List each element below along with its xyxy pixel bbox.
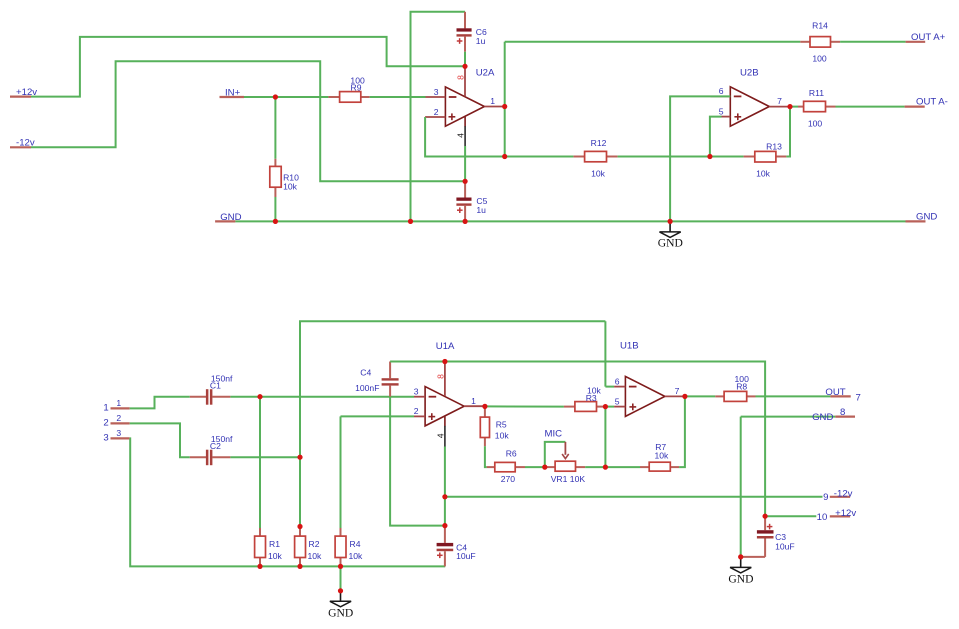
- ground symbol bottom left: [328, 591, 353, 620]
- wire VR1 to R7 junction: [585, 466, 605, 468]
- resistor R4: [335, 528, 363, 566]
- node port 2: [103, 413, 129, 429]
- svg-text:R13: R13: [766, 141, 782, 151]
- op-amp U1B: [620, 341, 665, 417]
- node +12v port label: [10, 87, 37, 98]
- svg-text:10uF: 10uF: [456, 551, 476, 561]
- node junction U1A out: [483, 404, 488, 409]
- node junction +12v/C6/pin8: [463, 64, 468, 69]
- wire -12v line: [445, 496, 823, 498]
- node U1B pin 5: [605, 396, 625, 406]
- op-amp U2B: [730, 68, 769, 127]
- svg-text:1u: 1u: [476, 205, 486, 215]
- svg-text:10k: 10k: [756, 169, 771, 179]
- wire MIC wiper loop: [545, 442, 566, 467]
- svg-text:8: 8: [435, 374, 445, 379]
- node junction out/feedback: [502, 154, 507, 159]
- svg-text:7: 7: [675, 386, 680, 396]
- svg-text:2: 2: [414, 406, 419, 416]
- wire U2B out to R11: [790, 106, 798, 108]
- node -12v port label: [10, 138, 35, 149]
- node U2A pin 2: [425, 107, 445, 117]
- svg-text:R2: R2: [309, 539, 320, 549]
- svg-text:MIC: MIC: [545, 429, 563, 440]
- wire pin4 to -12v junction: [464, 146, 466, 181]
- node junction R4/rail: [338, 564, 343, 569]
- svg-text:10: 10: [817, 512, 828, 523]
- wire C6 to +12v junction: [464, 52, 466, 67]
- svg-text:C4: C4: [360, 367, 371, 377]
- wire pin4 down to -12v: [444, 447, 446, 497]
- svg-text:3: 3: [103, 432, 108, 443]
- wire U1A out to R3: [485, 405, 564, 407]
- wire bottom GND rail: [260, 565, 445, 567]
- wire junction to VR1 line: [604, 407, 606, 468]
- capacitor C5: [456, 181, 487, 221]
- wire OUT A+ line: [505, 41, 801, 43]
- wire +12v top wire: [390, 362, 765, 517]
- node U1A pin 3: [414, 387, 425, 397]
- wire +12v run to C6 junction: [31, 37, 465, 97]
- svg-text:R4: R4: [350, 539, 361, 549]
- svg-text:3: 3: [116, 428, 121, 438]
- svg-text:OUT A+: OUT A+: [911, 32, 946, 43]
- svg-text:1u: 1u: [476, 36, 486, 46]
- wire GND net vertical: [740, 417, 742, 557]
- node -12v port label: [823, 488, 853, 503]
- wire IN+ down to R10: [274, 97, 276, 159]
- op-amp U1A: [425, 341, 464, 426]
- wire U1A pin2 line: [341, 415, 415, 417]
- svg-text:100: 100: [808, 118, 823, 128]
- wire R4 column: [340, 416, 342, 528]
- node junction R1/rail: [258, 564, 263, 569]
- capacitor C4 100nF: [355, 362, 399, 397]
- node junction R10/GND: [273, 219, 278, 224]
- svg-text:1: 1: [490, 96, 495, 106]
- op-amp U2A: [445, 68, 495, 127]
- node U2B pin 7 output: [769, 96, 790, 107]
- svg-text:8: 8: [840, 407, 845, 418]
- svg-text:100nF: 100nF: [355, 383, 379, 393]
- svg-text:2: 2: [103, 417, 108, 428]
- wire pin5 column: [710, 117, 722, 157]
- node junction pin8/+12v: [443, 359, 448, 364]
- wire R13 up to U2B out: [786, 107, 790, 157]
- svg-text:U1A: U1A: [436, 341, 455, 352]
- capacitor C4 10uF: [437, 526, 476, 567]
- svg-text:1: 1: [103, 402, 108, 413]
- svg-text:4: 4: [456, 133, 466, 138]
- wire +12v line: [765, 515, 816, 517]
- resistor R14: [800, 21, 840, 64]
- node junction U2Bpin6col/GND: [668, 219, 673, 224]
- svg-text:3: 3: [434, 87, 439, 97]
- wire R1 column: [259, 397, 261, 528]
- wire C1 to pin3 line: [230, 396, 414, 398]
- svg-text:R9: R9: [351, 83, 362, 93]
- node port 3: [103, 428, 129, 444]
- node GND right port label: [906, 212, 938, 223]
- node junction U1B out: [683, 394, 688, 399]
- node U1A pin 1 output: [464, 396, 485, 406]
- node junction -12v/pin4/C5: [463, 179, 468, 184]
- wire port1 to C1: [130, 397, 190, 409]
- svg-text:R5: R5: [496, 420, 507, 430]
- svg-text:4: 4: [435, 433, 445, 438]
- svg-text:5: 5: [615, 396, 620, 406]
- node junction VR1/R7: [603, 465, 608, 470]
- capacitor C6: [457, 12, 488, 52]
- resistor R5: [480, 406, 509, 446]
- svg-text:10uF: 10uF: [775, 542, 795, 552]
- svg-text:OUT: OUT: [825, 387, 845, 398]
- svg-text:+12v: +12v: [835, 508, 856, 519]
- wire R2 column down: [299, 457, 301, 526]
- capacitor C3: [741, 516, 795, 557]
- node junction R6/VR1/MIC: [542, 465, 547, 470]
- node OUT A+ port label: [906, 32, 946, 43]
- wire U2A pin8 power lead: [464, 66, 466, 96]
- wire U2B pin6 to GND column: [670, 96, 730, 221]
- node port 1: [103, 398, 129, 413]
- node IN+ port label: [220, 87, 245, 98]
- svg-text:1: 1: [116, 398, 121, 408]
- svg-text:R14: R14: [812, 21, 828, 31]
- svg-text:R8: R8: [736, 382, 747, 392]
- wire C6 top to GND column: [411, 12, 466, 222]
- svg-text:C2: C2: [210, 441, 221, 451]
- svg-text:10k: 10k: [268, 551, 283, 561]
- resistor R2: [295, 527, 322, 567]
- node GND port label: [812, 407, 855, 423]
- svg-text:R11: R11: [809, 88, 824, 98]
- svg-text:7: 7: [777, 96, 782, 106]
- wire R8 to OUT port: [756, 395, 831, 397]
- svg-text:10k: 10k: [308, 551, 323, 561]
- resistor R13: [744, 141, 787, 178]
- svg-text:6: 6: [719, 86, 724, 96]
- wire top wire down to U1B pin6: [604, 321, 606, 386]
- resistor R3: [564, 385, 606, 411]
- svg-text:2: 2: [434, 107, 439, 117]
- svg-text:OUT A-: OUT A-: [916, 97, 948, 108]
- node junction GND/C3: [738, 555, 743, 560]
- wire port3 to bottom rail: [130, 438, 260, 566]
- capacitor C2: [190, 434, 233, 465]
- svg-text:100: 100: [812, 54, 827, 64]
- wire U2A pin4 power lead: [464, 117, 466, 127]
- ground symbol bottom right: [728, 557, 753, 585]
- node junction C6top-column/GND: [408, 219, 413, 224]
- node +12v port label: [817, 508, 857, 523]
- node junction C2/R2: [298, 455, 303, 460]
- node U2B pin 6: [711, 86, 731, 96]
- svg-text:270: 270: [501, 474, 516, 484]
- node U2A pin 1 output: [484, 96, 504, 107]
- junction dots overlay: [257, 64, 792, 594]
- svg-text:U1B: U1B: [620, 341, 639, 352]
- wire R10 to GND rail: [274, 197, 276, 221]
- svg-text:10k: 10k: [654, 451, 669, 461]
- node junction +12v/C3: [763, 514, 768, 519]
- svg-text:GND: GND: [728, 572, 753, 585]
- svg-text:1: 1: [471, 396, 476, 406]
- wire feedback to R12: [505, 156, 574, 158]
- node junction pin4col/-12v: [443, 494, 448, 499]
- svg-text:C3: C3: [775, 532, 786, 542]
- svg-text:-12v: -12v: [834, 488, 853, 499]
- resistor R6: [487, 448, 525, 483]
- resistor R12: [573, 138, 617, 179]
- node junction C1/R1: [258, 394, 263, 399]
- wire R12 to R13 junction: [618, 156, 744, 158]
- node GND left port label: [215, 212, 241, 223]
- wire rail to GND stem: [340, 566, 342, 590]
- svg-text:10k: 10k: [349, 551, 364, 561]
- svg-text:10k: 10k: [495, 430, 510, 440]
- node junction U2A out: [502, 104, 507, 109]
- node junction R2 top: [298, 524, 303, 529]
- wire GND rail top section: [235, 220, 905, 222]
- svg-text:GND: GND: [916, 212, 937, 223]
- svg-text:R3: R3: [586, 393, 597, 403]
- svg-text:2: 2: [116, 413, 121, 423]
- wire GND net horizontal: [741, 416, 836, 418]
- wire junction to R7: [605, 466, 640, 468]
- node U1A pin 2: [414, 406, 425, 416]
- node junction R12/R13/pin5: [708, 154, 713, 159]
- node junction IN+/R10: [273, 95, 278, 100]
- node junction GND stem: [338, 588, 343, 593]
- node OUT port label: [825, 387, 860, 403]
- node junction C5/GND: [463, 219, 468, 224]
- node junction R2/rail: [298, 564, 303, 569]
- node junction R3/pin5/VR1col: [603, 404, 608, 409]
- wire C4 column down: [390, 397, 445, 526]
- node U2A pin 3: [426, 87, 446, 97]
- wire U1A pin4 power lead: [444, 417, 446, 427]
- ground symbol top: [658, 221, 683, 249]
- potentiometer VR1: [545, 442, 586, 484]
- wire pin4col to C4 junction: [444, 497, 446, 526]
- resistor R11: [798, 88, 836, 128]
- svg-text:U2A: U2A: [476, 68, 495, 79]
- svg-text:10k: 10k: [283, 182, 298, 192]
- node U1B pin 6: [605, 376, 625, 386]
- capacitor C1: [190, 373, 233, 404]
- node OUT A- port label: [905, 97, 948, 108]
- svg-text:9: 9: [823, 492, 828, 503]
- svg-text:R6: R6: [506, 448, 517, 458]
- svg-text:VR1 10K: VR1 10K: [551, 474, 586, 484]
- node junction pin4col/C4bypass: [443, 523, 448, 528]
- node junction U2B out: [788, 104, 793, 109]
- wire U1A pin8 power lead: [444, 362, 446, 397]
- wire U2A out column: [504, 42, 506, 157]
- svg-text:3: 3: [414, 387, 419, 397]
- resistor R10: [270, 159, 299, 197]
- wire R6 to VR1 junction: [525, 466, 545, 468]
- wire C2 to R2 column: [230, 456, 300, 458]
- svg-text:GND: GND: [328, 606, 353, 619]
- wire port2 to C2: [130, 423, 190, 457]
- resistor R1: [255, 528, 283, 566]
- svg-text:10k: 10k: [591, 169, 606, 179]
- svg-text:R12: R12: [591, 138, 607, 148]
- wire -12v run to U2A pin4 column: [31, 61, 465, 181]
- wire R7 up to U1B out: [679, 396, 685, 467]
- svg-text:5: 5: [719, 106, 724, 116]
- wire R14 to OUT A+: [840, 41, 906, 43]
- svg-text:C1: C1: [210, 381, 221, 391]
- resistor R8: [715, 374, 755, 402]
- svg-text:8: 8: [456, 75, 466, 80]
- node U2B pin 5: [719, 106, 731, 116]
- svg-text:R1: R1: [269, 539, 280, 549]
- svg-text:7: 7: [856, 392, 861, 403]
- svg-text:6: 6: [615, 376, 620, 386]
- svg-text:U2B: U2B: [740, 68, 759, 79]
- wire R9 to U2A pin3: [370, 96, 426, 98]
- wire IN+ to R9: [244, 96, 328, 98]
- resistor R9: [328, 75, 369, 102]
- svg-text:GND: GND: [658, 237, 683, 250]
- wire U1B out to R8: [685, 395, 715, 397]
- wire R5 down to R6: [485, 446, 487, 467]
- wire U2A pin2 feedback loop: [425, 117, 505, 157]
- svg-text:GND: GND: [812, 412, 833, 423]
- resistor R7: [640, 442, 679, 471]
- wire R2 column up to top wire: [300, 321, 605, 457]
- node U1B pin 7 output: [665, 386, 685, 396]
- wire R11 to OUT A-: [836, 106, 905, 108]
